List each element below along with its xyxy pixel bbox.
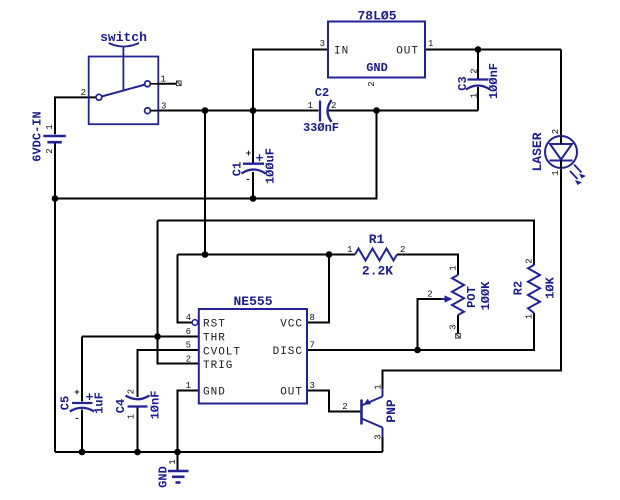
svg-text:78LØ5: 78LØ5 — [357, 9, 396, 24]
wire switch pin2 to battery top — [55, 97, 96, 134]
svg-text:1ØØuF: 1ØØuF — [264, 148, 278, 184]
potentiometer POT 100K — [427, 265, 493, 329]
svg-text:GND: GND — [157, 466, 171, 488]
wire POT wiper vertical — [418, 299, 442, 350]
no-connect marker POT pin3 — [456, 334, 461, 339]
no-connect marker switch pin1 — [177, 81, 182, 86]
wire y255 RST/VCC/R1 rail — [178, 254, 356, 256]
svg-text:2: 2 — [367, 81, 377, 86]
wire y110 rail right part (C2 pin2 to C3 bottom) — [327, 110, 478, 112]
wire VCC branch — [307, 255, 329, 323]
svg-text:GND: GND — [203, 387, 226, 399]
node junction C4 on bottom rail — [134, 449, 141, 456]
node junction C5 on bottom rail — [79, 449, 86, 456]
wire RST vertical — [178, 255, 192, 323]
node junction POT wiper on DISC wire — [414, 347, 421, 354]
capacitor C2 330nF — [303, 86, 339, 135]
svg-text:1: 1 — [525, 314, 535, 319]
node junction C1 on y198 — [250, 195, 257, 202]
svg-text:GND: GND — [366, 61, 388, 75]
svg-text:CVOLT: CVOLT — [203, 347, 241, 359]
wire x205 vertical to y255 — [204, 111, 206, 255]
svg-text:2: 2 — [342, 402, 347, 412]
svg-text:2: 2 — [551, 129, 561, 134]
svg-text:3: 3 — [374, 434, 384, 439]
svg-text:6: 6 — [186, 327, 191, 337]
regulator U2 78L05 — [320, 9, 434, 87]
svg-text:1: 1 — [186, 381, 191, 391]
svg-text:6VDC-IN: 6VDC-IN — [31, 111, 45, 161]
svg-text:2: 2 — [186, 355, 191, 365]
svg-text:2: 2 — [45, 148, 55, 153]
svg-text:PNP: PNP — [384, 399, 399, 423]
svg-text:3: 3 — [161, 102, 166, 112]
capacitor C3 100nF — [456, 63, 501, 99]
ground symbol GND — [157, 459, 189, 488]
wire battery bottom down left rail — [54, 143, 56, 452]
svg-text:R1: R1 — [369, 232, 385, 247]
wire laser anode vertical — [560, 50, 562, 145]
node junction VCC branch on y255 — [326, 251, 333, 258]
wire y110 rail left part (switch pin3 to C2 pin1) — [158, 110, 318, 112]
svg-text:1ØK: 1ØK — [544, 276, 558, 298]
svg-text:1ØØnF: 1ØØnF — [487, 63, 501, 99]
wire C3 branch lower — [477, 87, 479, 111]
svg-text:2: 2 — [127, 389, 137, 394]
capacitor C1 100uF — [231, 148, 278, 185]
svg-text:NE555: NE555 — [233, 294, 272, 309]
svg-text:+: + — [256, 151, 264, 166]
svg-text:33ØnF: 33ØnF — [303, 121, 339, 135]
switch SW1 — [81, 30, 167, 124]
transistor Q1 PNP — [342, 384, 399, 439]
wire C1 branch lower — [252, 172, 254, 199]
svg-text:VCC: VCC — [280, 319, 303, 331]
svg-text:2: 2 — [427, 290, 432, 300]
svg-text:1: 1 — [45, 124, 55, 129]
node junction THR on vertical — [154, 333, 161, 340]
resistor R2 10K — [512, 258, 558, 319]
wire y221 THR-TRIG to R2 top — [158, 221, 535, 266]
svg-text:1uF: 1uF — [93, 392, 107, 414]
svg-text:1ØnF: 1ØnF — [149, 391, 163, 420]
resistor R1 2.2K — [347, 232, 405, 279]
laser diode D1 LASER — [530, 129, 585, 185]
svg-text:IN: IN — [334, 46, 349, 58]
svg-text:5: 5 — [186, 341, 191, 351]
wire THR/TRIG vertical — [158, 221, 199, 364]
node junction x205 on y255 — [202, 251, 209, 258]
wire GND symbol stub — [177, 452, 179, 471]
wire C3 branch upper — [477, 50, 479, 79]
svg-text:C1: C1 — [231, 162, 245, 176]
svg-text:OUT: OUT — [396, 46, 419, 58]
svg-text:1: 1 — [428, 39, 433, 49]
svg-text:1: 1 — [449, 265, 459, 270]
svg-text:8: 8 — [310, 313, 315, 323]
wire laser cathode down and left to PNP emitter — [383, 161, 562, 388]
svg-text:1: 1 — [347, 245, 352, 255]
svg-text:C5: C5 — [59, 396, 73, 410]
connector J1 6VDC-IN — [31, 111, 66, 161]
svg-text:1ØØK: 1ØØK — [479, 281, 493, 311]
svg-text:3: 3 — [320, 39, 325, 49]
node junction 6VDC on y198 rail — [52, 195, 59, 202]
wire NE555 OUT to PNP base — [307, 391, 361, 412]
svg-text:LASER: LASER — [530, 132, 545, 171]
wire DISC to R2 bottom — [307, 313, 534, 350]
svg-text:OUT: OUT — [280, 387, 303, 399]
svg-text:switch: switch — [100, 30, 147, 45]
svg-text:2: 2 — [400, 245, 405, 255]
node junction C3 top on OUT wire — [475, 46, 482, 53]
node junction x253 on y110 — [250, 107, 257, 114]
svg-text:C4: C4 — [114, 399, 128, 413]
wire C1 branch upper — [252, 111, 254, 164]
node junction GND on bottom rail — [174, 449, 181, 456]
svg-text:DISC: DISC — [273, 346, 303, 358]
svg-text:1: 1 — [551, 170, 561, 175]
svg-text:1: 1 — [168, 459, 178, 464]
svg-text:-: - — [245, 175, 250, 185]
svg-text:2: 2 — [331, 101, 336, 111]
capacitor C5 1uF — [59, 388, 107, 424]
svg-text:POT: POT — [465, 286, 479, 308]
wire switch pin1 stub — [158, 83, 176, 85]
svg-text:-: - — [74, 414, 79, 424]
svg-text:7: 7 — [310, 341, 315, 351]
svg-text:C2: C2 — [315, 86, 329, 100]
node junction x205 on y110 — [202, 107, 209, 114]
svg-text:C3: C3 — [456, 76, 470, 90]
svg-text:TRIG: TRIG — [203, 360, 233, 372]
wire CVOLT to C4 top — [138, 350, 199, 397]
wire C5 branch upper — [81, 337, 83, 402]
wire THR to C5 top — [82, 336, 199, 338]
wire C5 branch lower — [81, 410, 83, 453]
svg-text:2: 2 — [81, 88, 86, 98]
node junction 78L05 GND on y110 rail — [373, 107, 380, 114]
svg-text:3: 3 — [310, 381, 315, 391]
wire bottom ground rail y452 — [55, 451, 383, 453]
svg-text:THR: THR — [203, 333, 226, 345]
wire 78L05 OUT to laser top — [425, 49, 561, 51]
wire x253 up to 78L05 IN pin — [253, 50, 328, 111]
svg-text:2.2K: 2.2K — [362, 264, 393, 279]
svg-text:R2: R2 — [512, 281, 526, 295]
capacitor C4 10nF — [114, 389, 163, 420]
svg-text:2: 2 — [470, 68, 480, 73]
wire y198 ground rail to 78L05 GND — [55, 111, 377, 199]
svg-text:+: + — [246, 149, 251, 159]
wire C4 branch lower — [137, 408, 139, 453]
svg-text:+: + — [74, 388, 79, 398]
svg-text:1: 1 — [374, 384, 384, 389]
wire POT pin3 stub — [457, 315, 459, 334]
svg-text:RST: RST — [203, 319, 226, 331]
wire NE555 GND pin to bottom rail — [178, 391, 199, 453]
svg-text:1: 1 — [127, 414, 137, 419]
svg-text:3: 3 — [449, 324, 459, 329]
svg-text:2: 2 — [525, 258, 535, 263]
svg-text:4: 4 — [186, 313, 191, 323]
wire PNP collector to bottom rail — [382, 437, 384, 452]
wire R1 pin2 to POT pin1 — [397, 255, 458, 276]
svg-text:1: 1 — [470, 93, 480, 98]
svg-text:1: 1 — [308, 101, 313, 111]
IC U1 NE555 — [186, 294, 315, 404]
